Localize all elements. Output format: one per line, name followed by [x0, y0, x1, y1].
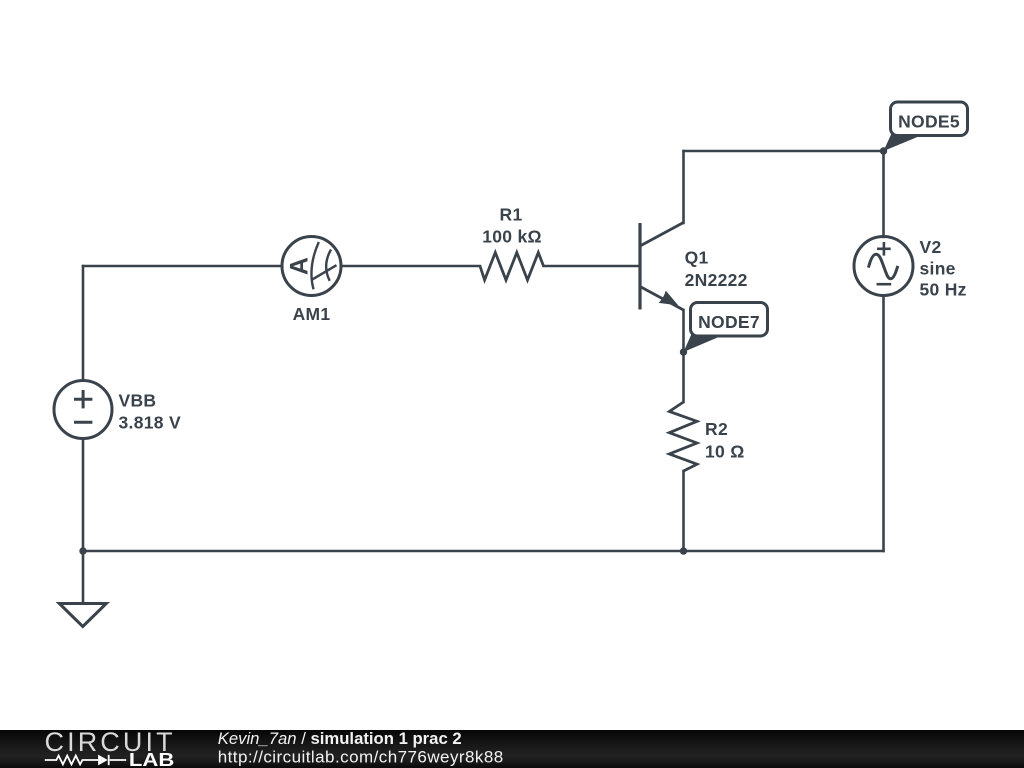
- node dot NODE5: [880, 147, 887, 154]
- wire: [682, 151, 685, 223]
- wire: [83, 550, 884, 553]
- ground: [59, 551, 106, 627]
- voltage source VBB: [54, 381, 112, 439]
- resistor R1: [480, 253, 544, 281]
- label V2 value: [920, 237, 967, 300]
- voltage source V2: [854, 237, 913, 296]
- wire: [682, 310, 685, 402]
- wire: [882, 151, 885, 237]
- svg-text:http://circuitlab.com/ch776wey: http://circuitlab.com/ch776weyr8k88: [218, 747, 504, 766]
- footer bar: [0, 730, 1024, 768]
- label VBB value: [119, 391, 181, 433]
- ammeter AM1: [282, 237, 341, 296]
- node dot NODE7: [680, 348, 687, 355]
- node dot bottom junction: [680, 547, 687, 554]
- transistor Q1: [640, 223, 684, 311]
- wire: [83, 265, 282, 268]
- wire: [82, 266, 85, 381]
- Q1 emitter arrow: [659, 291, 679, 306]
- wire: [684, 150, 884, 153]
- wire: [82, 438, 85, 551]
- label Q1 value: [685, 247, 748, 290]
- svg-text:LAB: LAB: [129, 749, 175, 768]
- node dot ground junction: [79, 547, 86, 554]
- wire: [682, 471, 685, 551]
- label R1 value: [482, 205, 542, 247]
- svg-text:Kevin_7an / simulation 1 prac: Kevin_7an / simulation 1 prac 2: [218, 729, 462, 748]
- wire: [544, 265, 641, 268]
- flag NODE7: [684, 303, 768, 353]
- logo resistor-diode glyph: [45, 755, 126, 765]
- label R2 value: [705, 419, 745, 462]
- wire: [882, 296, 885, 552]
- flag NODE5: [884, 102, 968, 151]
- wire: [341, 265, 480, 268]
- resistor R2: [669, 402, 697, 471]
